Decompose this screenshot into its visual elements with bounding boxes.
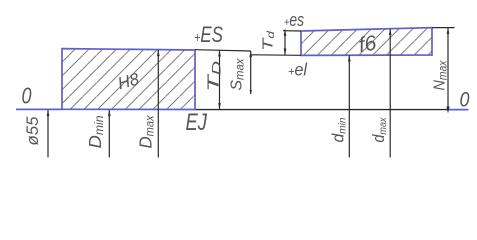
svg-text:ø55: ø55 — [24, 116, 42, 146]
svg-text:0: 0 — [22, 83, 32, 109]
svg-text:0: 0 — [460, 88, 470, 112]
svg-text:EJ: EJ — [186, 109, 208, 136]
